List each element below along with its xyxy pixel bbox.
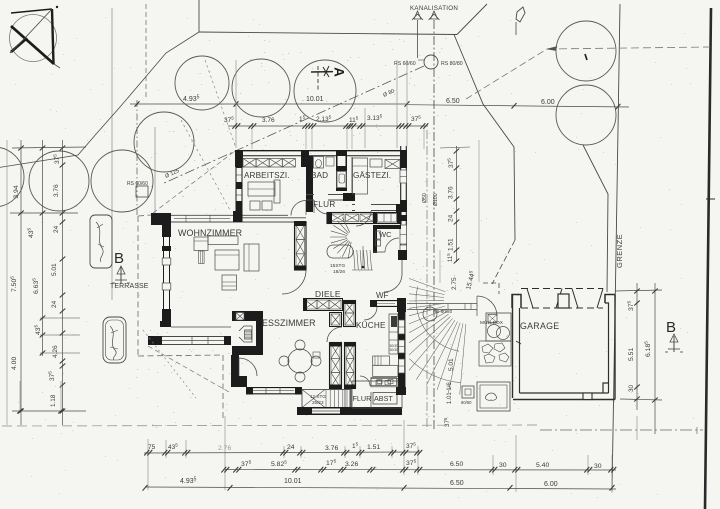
east wall upper (400, 146, 407, 260)
arbeitszimmer left wall (236, 150, 243, 211)
kitchen counters (371, 314, 398, 387)
svg-text:B: B (666, 319, 676, 336)
right border tick (706, 198, 715, 200)
svg-text:WOHNZIMMER: WOHNZIMMER (178, 228, 242, 238)
bad gaeste interior walls (306, 156, 401, 214)
svg-text:30: 30 (594, 463, 602, 470)
section marker B left and TERRASSE label (110, 250, 149, 290)
svg-text:3.76: 3.76 (53, 184, 60, 197)
svg-text:KÜCHE: KÜCHE (356, 320, 386, 330)
manhole leader (418, 59, 424, 61)
boundary dash to entrance (492, 240, 515, 284)
bottom dimension row 1 (144, 442, 422, 456)
svg-text:GRENZE: GRENZE (615, 234, 624, 268)
wohnzimmer furniture (194, 236, 259, 290)
svg-text:FLUR: FLUR (313, 200, 336, 209)
svg-text:60/60: 60/60 (461, 400, 472, 405)
esszimmer dining table (279, 340, 321, 382)
chimney block (330, 300, 357, 327)
svg-text:TERRASSE: TERRASSE (110, 283, 149, 290)
diele sideboard (303, 298, 343, 311)
wohnzimmer bottom wall (148, 327, 231, 345)
boundary corner left (0, 32, 199, 168)
extension x397 (396, 60, 398, 148)
svg-text:24: 24 (448, 214, 455, 222)
north arrow (10, 6, 61, 68)
street line x112 (111, 8, 113, 300)
house top wall with masonry hatch (235, 150, 407, 194)
corner block left (151, 213, 171, 225)
tree mark (585, 54, 587, 60)
svg-text:2.75: 2.75 (451, 277, 458, 290)
extension x407 (406, 60, 408, 146)
extension line x479 (478, 140, 480, 282)
planter lower (103, 317, 126, 363)
esszimmer bottom wall (246, 387, 302, 395)
svg-text:RS 60/60: RS 60/60 (127, 181, 148, 187)
section marker A (311, 66, 347, 92)
svg-text:3.76: 3.76 (262, 117, 275, 124)
right border thick (705, 8, 711, 509)
bottom extension lines (148, 416, 637, 493)
svg-text:24: 24 (287, 444, 295, 451)
boundary corner v-up (457, 4, 487, 35)
bad fixtures (326, 157, 334, 166)
sewer dash-dot diagonal (162, 66, 424, 184)
yard dotted paths (153, 60, 236, 213)
wohnzimmer glass wall (294, 221, 306, 271)
bottom dashed lines (2, 425, 703, 434)
esszimmer kueche double hatched wall (329, 342, 356, 389)
dashed diagonal to manhole (466, 49, 547, 99)
svg-text:GARAGE: GARAGE (520, 321, 559, 331)
svg-text:WC: WC (379, 230, 392, 239)
flur door arc (360, 376, 370, 386)
svg-text:2.76: 2.76 (218, 445, 231, 452)
svg-text:BAD: BAD (311, 171, 328, 180)
svg-text:18/26: 18/26 (333, 269, 345, 275)
cellar stairs wall piece (344, 389, 346, 407)
svg-text:5.51: 5.51 (628, 348, 635, 361)
house bottom wall (297, 407, 402, 415)
svg-text:3.76: 3.76 (448, 186, 455, 199)
svg-text:FLUR: FLUR (353, 394, 372, 403)
tree-line diagonal right (583, 145, 608, 292)
dashed street line x146 (145, 4, 147, 97)
svg-text:3.76: 3.76 (325, 445, 338, 452)
svg-text:6.50: 6.50 (450, 480, 464, 487)
bottom dimension row 3 (143, 477, 616, 491)
planter upper (90, 215, 112, 268)
kanalisation lines and arrows (410, 5, 458, 430)
diele door arc (282, 270, 306, 294)
street line x155 (154, 127, 156, 214)
east dimension column (440, 146, 470, 263)
svg-text:DIELE: DIELE (315, 289, 341, 299)
svg-text:10.01: 10.01 (284, 478, 302, 485)
svg-text:6.50: 6.50 (446, 98, 460, 105)
svg-text:ARBEITSZI.: ARBEITSZI. (244, 171, 290, 180)
left bottom dims (17, 381, 64, 413)
small sketch arrow (516, 7, 525, 35)
dashed sight arrow (547, 47, 557, 51)
gaeste door arc (355, 205, 369, 219)
svg-text:ABST: ABST (374, 394, 393, 403)
flur stair hatched wall (327, 212, 401, 224)
svg-text:25/23: 25/23 (312, 400, 324, 405)
cold frame (477, 382, 510, 411)
svg-text:3.26: 3.26 (345, 461, 358, 468)
post 60/60 (462, 386, 474, 398)
extension x236 (235, 60, 237, 148)
arbeitszimmer desk (248, 180, 280, 210)
svg-text:GÄSTEZI.: GÄSTEZI. (353, 170, 391, 180)
svg-text:30: 30 (628, 384, 635, 392)
kueche door arc (327, 327, 342, 342)
bottom dimension row 2 (221, 459, 616, 473)
svg-text:1.51: 1.51 (367, 444, 380, 451)
boundary top horizontal (199, 32, 457, 35)
svg-text:ESSZIMMER: ESSZIMMER (262, 318, 316, 328)
svg-text:6.50: 6.50 (450, 461, 463, 468)
svg-text:30/30: 30/30 (390, 348, 399, 352)
svg-text:MÜLLBOX: MÜLLBOX (480, 319, 504, 326)
dash-dot street line x137 (136, 100, 138, 215)
svg-text:6.00: 6.00 (541, 99, 555, 106)
svg-text:Ø50: Ø50 (422, 193, 428, 203)
svg-text:RS 80/80: RS 80/80 (441, 61, 463, 67)
section marker B right (665, 319, 683, 352)
svg-text:75: 75 (148, 444, 156, 451)
garage walls (512, 289, 615, 400)
svg-text:1.51: 1.51 (448, 238, 455, 251)
svg-text:24: 24 (53, 225, 60, 233)
left dimension columns (7, 140, 86, 425)
svg-text:1.18: 1.18 (50, 394, 57, 407)
gaestezimmer bed (353, 158, 383, 194)
svg-text:5.01: 5.01 (51, 263, 58, 276)
esszimmer terrace door (231, 355, 257, 387)
boundary diagonal right (454, 35, 515, 241)
svg-text:6.00: 6.00 (544, 481, 558, 488)
svg-text:WF: WF (376, 291, 389, 300)
dimension chain top (130, 95, 629, 110)
svg-text:1.01 1/6: 1.01 1/6 (447, 382, 453, 404)
side table (219, 274, 239, 290)
house bottom wall window (312, 409, 340, 414)
terrace dashed outline (138, 215, 229, 418)
svg-text:5.40: 5.40 (536, 462, 549, 469)
right dimension columns (615, 283, 662, 434)
svg-text:Ø100: Ø100 (433, 193, 439, 206)
svg-text:4.26: 4.26 (52, 345, 59, 358)
muellbox (480, 313, 511, 341)
flur abst room (352, 378, 402, 409)
cellar stairs (302, 390, 350, 408)
main staircase (322, 217, 373, 275)
svg-text:12 STG: 12 STG (310, 394, 326, 399)
trees (site plan circles) (0, 21, 616, 212)
svg-text:30: 30 (499, 462, 507, 469)
svg-text:B: B (114, 250, 124, 267)
wohnzimmer top wall (151, 200, 307, 222)
wc room (373, 225, 401, 253)
extension line x440 (439, 250, 441, 283)
boundary vertical from top (198, 0, 200, 32)
house bottom wall window line (312, 410, 340, 412)
svg-text:4.00: 4.00 (11, 357, 18, 370)
svg-text:10.01: 10.01 (306, 96, 324, 103)
fireplace (kamin) (232, 311, 263, 355)
svg-text:5.01: 5.01 (448, 358, 455, 371)
dashed sight line top right (547, 47, 710, 49)
driveway fan paving (409, 279, 466, 395)
east wall lower (396, 311, 406, 395)
wohnzimmer left window wall (160, 225, 171, 327)
svg-text:3.94: 3.94 (13, 185, 20, 198)
svg-text:15STG: 15STG (330, 263, 345, 269)
extension x365 (364, 108, 366, 148)
door arc arbeitszimmer (291, 201, 306, 216)
svg-text:A: A (332, 67, 347, 77)
grenze line (612, 4, 620, 491)
svg-text:RS 80/80: RS 80/80 (433, 309, 453, 314)
stone paving by garage (479, 341, 511, 366)
wf entrance (364, 250, 407, 320)
manhole circle (424, 55, 438, 69)
dimension row 2 top (224, 114, 428, 129)
extension stubs top wall (251, 128, 253, 149)
svg-text:24: 24 (51, 300, 58, 308)
entrance gate and walkway (407, 283, 499, 316)
sewer box bottom-left (136, 186, 148, 197)
